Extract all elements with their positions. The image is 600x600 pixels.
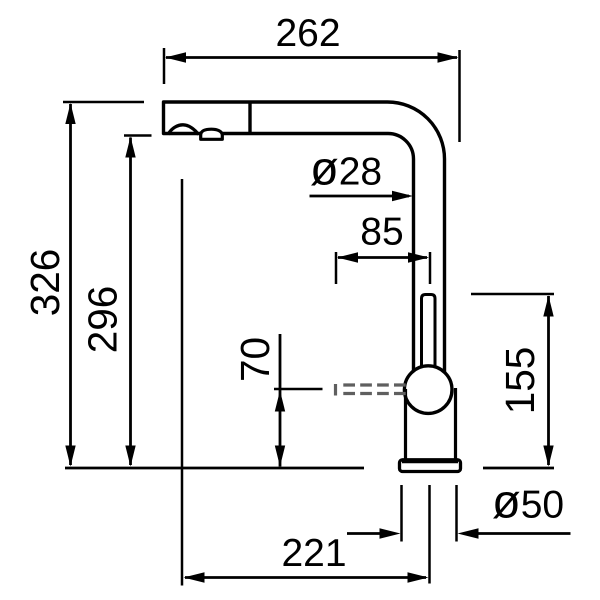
- svg-text:85: 85: [360, 211, 403, 254]
- svg-text:262: 262: [275, 12, 340, 55]
- svg-text:326: 326: [22, 249, 68, 317]
- svg-text:296: 296: [79, 286, 125, 354]
- svg-text:70: 70: [232, 337, 278, 382]
- svg-text:221: 221: [281, 532, 346, 575]
- svg-text:155: 155: [497, 347, 543, 415]
